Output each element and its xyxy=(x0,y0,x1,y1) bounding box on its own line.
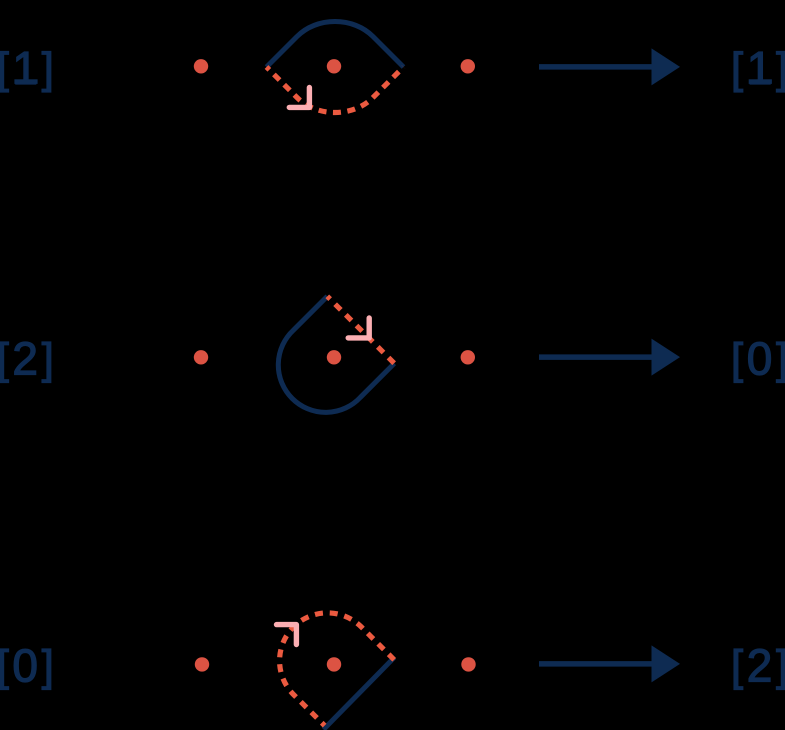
svg-text:]: ] xyxy=(42,643,54,691)
svg-text:]: ] xyxy=(776,45,785,93)
svg-text:0: 0 xyxy=(747,333,773,385)
svg-text:1: 1 xyxy=(747,42,773,94)
svg-text:[: [ xyxy=(731,45,743,93)
svg-text:]: ] xyxy=(776,643,785,691)
svg-text:]: ] xyxy=(42,336,54,384)
svg-text:[: [ xyxy=(731,336,743,384)
svg-text:2: 2 xyxy=(747,640,773,692)
svg-text:[: [ xyxy=(731,643,743,691)
svg-text:]: ] xyxy=(776,336,785,384)
svg-text:1: 1 xyxy=(12,42,38,94)
svg-text:[: [ xyxy=(0,45,9,93)
svg-text:2: 2 xyxy=(12,333,38,385)
svg-text:[: [ xyxy=(0,643,9,691)
svg-text:[: [ xyxy=(0,336,9,384)
svg-text:0: 0 xyxy=(12,640,38,692)
svg-text:]: ] xyxy=(42,45,54,93)
